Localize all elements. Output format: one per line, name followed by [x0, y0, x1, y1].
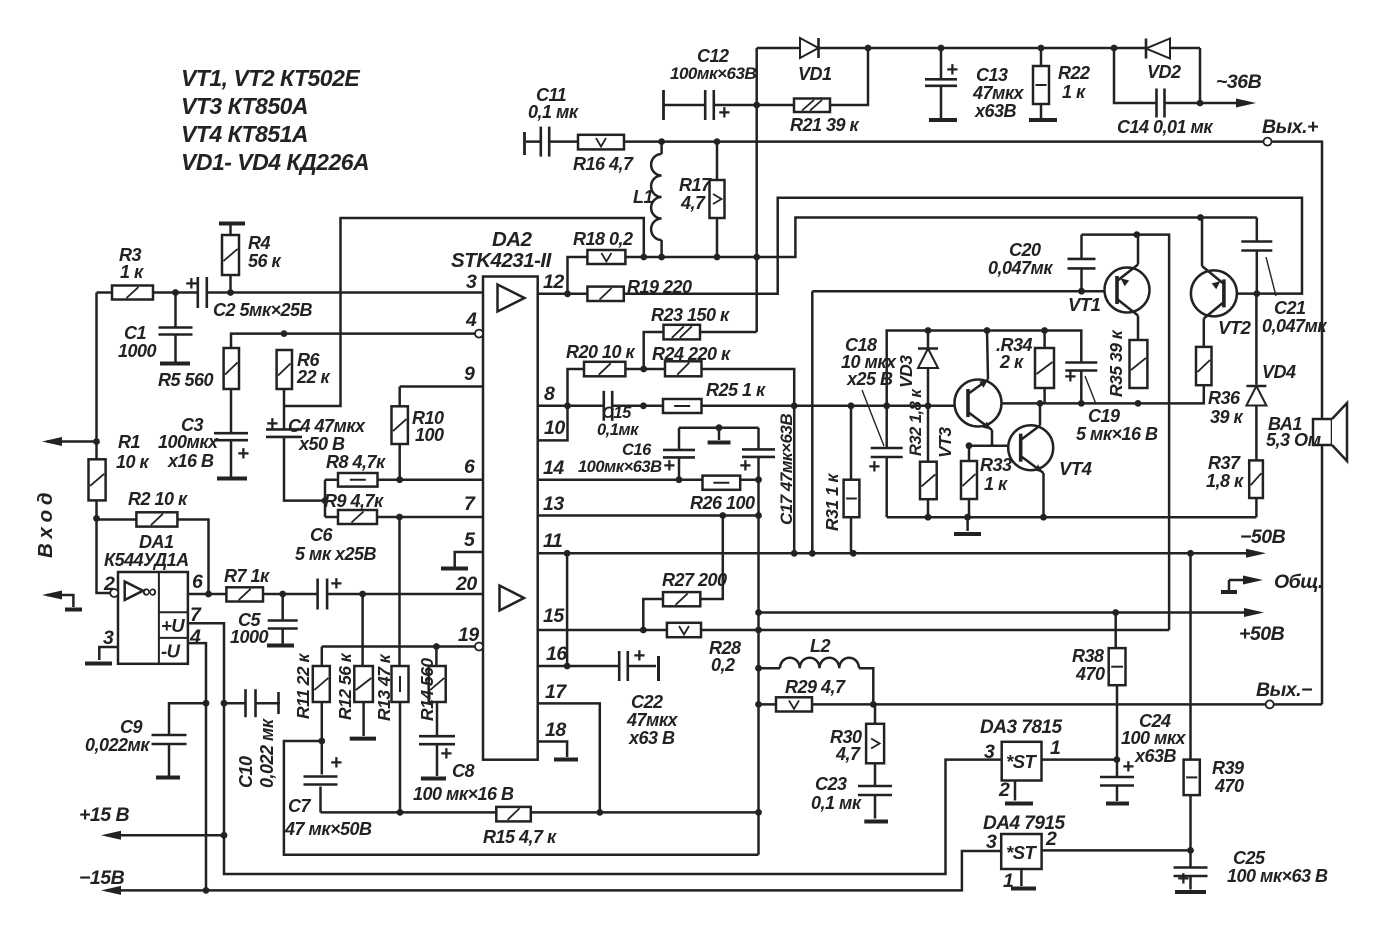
wire C10 branch — [224, 702, 280, 705]
capacitor C17 47mk x63V — [740, 448, 777, 458]
node dot R33 top — [966, 442, 973, 449]
capacitor C21 0.047mk — [1239, 241, 1274, 252]
svg-text:R27 200: R27 200 — [662, 570, 727, 590]
wire DA1 -U rail to -15V — [188, 643, 206, 890]
svg-text:VT4 КТ851А: VT4 КТ851А — [181, 121, 308, 147]
DA2 pin19 open circle — [475, 643, 483, 651]
diode VD1 — [800, 38, 819, 58]
svg-text:+: + — [1122, 755, 1134, 778]
inductor L2 — [780, 658, 859, 669]
label R4 — [248, 233, 282, 271]
wire input common arrow with step — [42, 591, 82, 610]
wire VD4/R37 column — [1255, 294, 1258, 518]
label C11 — [528, 85, 579, 122]
wire pin10 tied to pin8 — [538, 406, 568, 441]
svg-text:STK4231-II: STK4231-II — [451, 249, 553, 272]
svg-text:2: 2 — [1045, 828, 1057, 850]
op-amp DA1 K544UD1A body — [118, 572, 188, 664]
DA2 channel-1 triangle — [498, 285, 525, 312]
terminal bar below C5 — [267, 644, 294, 648]
label C13 plus — [946, 58, 958, 81]
label C9 — [85, 717, 150, 755]
svg-text:1 к: 1 к — [984, 474, 1008, 494]
label R38 — [1072, 646, 1105, 684]
wire feedback loop from R6 node up and over to R18 node (y=218) — [284, 218, 644, 406]
capacitor C18 10mk x25V — [869, 447, 905, 458]
node dots on pin8 line — [564, 366, 931, 410]
svg-text:R32 1,8 к: R32 1,8 к — [907, 388, 925, 456]
wire pin9 line with R10 drop — [400, 387, 483, 480]
svg-text:2: 2 — [998, 779, 1010, 801]
node dot C4/R8/R9 — [322, 497, 329, 504]
label R16 — [573, 154, 634, 174]
wire VD3/R32 column — [927, 331, 930, 518]
svg-text:+50В: +50В — [1239, 623, 1285, 645]
svg-text:470: 470 — [1075, 664, 1105, 684]
resistor R32 1.8k — [920, 462, 937, 500]
terminal bar C22 end — [657, 656, 660, 681]
label -50V — [1240, 526, 1286, 548]
svg-text:15: 15 — [543, 605, 565, 627]
resistor R1 10k — [89, 459, 106, 500]
resistor R26 100 — [703, 476, 741, 490]
svg-text:10: 10 — [544, 417, 565, 439]
svg-text:С12: С12 — [697, 46, 729, 66]
label C8 — [413, 761, 514, 804]
node dot R13 top — [396, 514, 403, 521]
label Vykh+ — [1262, 116, 1318, 138]
node dot pin16 — [564, 663, 571, 670]
resistor R27 200 — [663, 592, 700, 606]
wire pin11-pin16 tie — [566, 553, 569, 666]
node dot DA3 pin1 / C24 — [1113, 756, 1120, 763]
inductor L1 — [651, 154, 662, 240]
diode VD4 — [1246, 386, 1266, 406]
label DA2 left pins — [455, 271, 479, 646]
terminal bar below C9 — [156, 776, 180, 780]
resistor R11 22k — [313, 666, 330, 702]
wire pin6 line — [325, 478, 483, 481]
svg-text:х63В: х63В — [1134, 746, 1177, 766]
svg-text:С19: С19 — [1088, 406, 1120, 426]
svg-text:1,8 к: 1,8 к — [1206, 471, 1244, 491]
diode VD2 — [1146, 39, 1170, 59]
svg-text:6: 6 — [192, 571, 203, 593]
wire vertical from top supply to R18 node and R23 — [755, 48, 758, 332]
svg-text:1 к: 1 к — [120, 262, 144, 282]
svg-text:R5 560: R5 560 — [158, 370, 214, 390]
amplifier IC DA2 STK4231-II body — [483, 277, 538, 760]
svg-text:0,1мк: 0,1мк — [597, 421, 640, 439]
wire R18 branch from pin12 node — [568, 257, 588, 294]
svg-text:56 к: 56 к — [248, 251, 282, 271]
capacitor C1 1000 — [157, 327, 195, 336]
svg-text:R16 4,7: R16 4,7 — [573, 154, 634, 174]
svg-text:16: 16 — [546, 643, 567, 665]
svg-text:3: 3 — [466, 271, 477, 293]
wire pin14 line through R26 — [538, 478, 759, 481]
label R19 — [627, 277, 692, 297]
wire VT1 collector bus to pin15 riser — [1082, 235, 1170, 630]
node dots pin14 line — [676, 476, 762, 483]
wire input arrow stub — [47, 440, 97, 443]
label R15 — [483, 827, 557, 847]
svg-text:С21: С21 — [1274, 298, 1306, 318]
wire C9 branch — [169, 703, 206, 775]
wire C24 stubs — [1116, 760, 1119, 801]
wire pin13 line — [538, 514, 759, 517]
node dots y=330 line — [925, 327, 1048, 334]
svg-text:R38: R38 — [1072, 646, 1104, 666]
resistor R21 39k — [794, 99, 830, 113]
svg-text:С20: С20 — [1009, 240, 1041, 260]
node dots pin20 line — [205, 591, 366, 598]
svg-text:Вых.−: Вых.− — [1256, 679, 1312, 701]
wire top supply line y=48 (VD1/C13/R22/VD2) — [757, 47, 1200, 50]
label C7 — [284, 796, 372, 839]
svg-text:R17: R17 — [679, 175, 712, 195]
svg-text:R36: R36 — [1208, 388, 1241, 408]
svg-text:VT3: VT3 — [935, 427, 955, 458]
resistor R4 56k — [222, 235, 239, 275]
label DA2 — [451, 228, 553, 272]
label C13 — [972, 65, 1024, 121]
svg-text:0,047мк: 0,047мк — [1262, 316, 1327, 336]
label C1 — [118, 323, 157, 361]
label R2 — [128, 489, 188, 509]
wire C17 vertical (supply column) — [757, 428, 760, 855]
svg-text:+: + — [1064, 365, 1076, 388]
node dot DA4 pin2 / C25 — [1187, 847, 1194, 854]
svg-text:1 к: 1 к — [1062, 82, 1086, 102]
node dots C9/C10 — [203, 700, 228, 707]
label R32 (rotated) — [907, 388, 925, 456]
node dots input column — [93, 289, 234, 522]
svg-text:+: + — [440, 742, 452, 765]
svg-text:-U: -U — [161, 641, 181, 662]
svg-text:х50 В: х50 В — [298, 434, 345, 454]
node dot L2 left — [755, 665, 762, 672]
svg-text:4: 4 — [189, 626, 201, 648]
node dot R14 top — [433, 643, 440, 650]
resistor R9 4.7k — [338, 510, 377, 524]
node dot C7 top — [318, 738, 325, 745]
wire R18/L1/R17 node line y=257 rising to y=217.5 bus — [625, 218, 1256, 258]
label BA1 — [1266, 414, 1321, 450]
resistor R23 150k — [664, 325, 701, 340]
wire R33 column — [968, 446, 971, 518]
wire DA1 +U rail to +15V and DA3 pin3 — [188, 623, 1002, 874]
svg-text:+: + — [946, 58, 958, 81]
label R34 — [996, 335, 1033, 372]
capacitor C10 0.022mk — [245, 687, 279, 719]
label R6 — [296, 350, 331, 387]
svg-text:С8: С8 — [452, 761, 474, 781]
label DA4 — [983, 813, 1065, 834]
label R28 — [709, 638, 741, 675]
wire DA1 pin3 to ground — [99, 647, 118, 660]
capacitor C15 0.1mk — [603, 389, 614, 423]
label R9 — [324, 491, 384, 511]
label DA1 — [104, 532, 189, 570]
node dots on output rail — [658, 138, 720, 145]
wire C7 stubs — [321, 741, 322, 812]
wire pin15 output line through R28 to riser — [538, 629, 1169, 632]
svg-text:R4: R4 — [248, 233, 270, 253]
svg-text:R22: R22 — [1058, 63, 1090, 83]
transistor VT3 KT850A — [955, 331, 1002, 446]
svg-text:R1: R1 — [118, 432, 140, 452]
svg-text:3: 3 — [103, 627, 114, 649]
wire R27 branch — [643, 516, 723, 631]
resistor R18 0.2 — [587, 250, 625, 264]
arrow input left — [42, 437, 62, 446]
svg-text:х25 В: х25 В — [846, 369, 893, 389]
wire R30/C23 chain — [874, 704, 877, 818]
wire VT3 emitter to VT4 base — [991, 443, 994, 446]
svg-text:100мк×63В: 100мк×63В — [578, 458, 662, 476]
capacitor C20 0.047mk — [1066, 258, 1098, 270]
wire pin20 line from DA1 through R7/C6 — [188, 593, 483, 596]
transistor VT4 KT851A — [1008, 403, 1053, 517]
svg-text:R26 100: R26 100 — [690, 493, 755, 513]
wire C19 bottom stub — [1080, 372, 1083, 404]
terminal bar pin5 — [441, 567, 468, 571]
resistor R6 22k — [277, 350, 292, 389]
label R26 — [690, 493, 755, 513]
terminal bar below C24 — [1106, 802, 1129, 806]
label C18 — [841, 335, 897, 389]
wire R12 chain — [363, 594, 364, 736]
svg-text:С10: С10 — [236, 756, 256, 788]
capacitor C6 5mk x25V — [317, 577, 329, 612]
capacitor C8 100mk x16V — [417, 735, 457, 745]
label +15V — [79, 804, 129, 826]
terminal bar below C1 — [160, 362, 190, 366]
node dots R15 line — [397, 809, 762, 816]
label R36 — [1208, 388, 1244, 427]
label R29 — [785, 677, 846, 697]
wire C18 stubs — [885, 406, 888, 517]
wire pin8/R25 bias line y=405.8 — [538, 405, 968, 408]
label R24 — [652, 344, 731, 364]
label VD4 — [1262, 362, 1296, 382]
svg-text:R13 47 к: R13 47 к — [374, 653, 394, 721]
label VD2 — [1147, 62, 1181, 82]
svg-text:47 мк×50В: 47 мк×50В — [284, 819, 372, 839]
svg-text:2 к: 2 к — [999, 352, 1024, 372]
svg-text:4,7: 4,7 — [680, 193, 706, 213]
svg-text:R29 4,7: R29 4,7 — [785, 677, 846, 697]
terminal bar below C23 — [864, 820, 888, 824]
svg-text:*ST: *ST — [1006, 842, 1038, 863]
svg-text:С6: С6 — [310, 525, 333, 545]
svg-text:R2 10 к: R2 10 к — [128, 489, 188, 509]
svg-text:8: 8 — [544, 383, 555, 405]
svg-text:С1: С1 — [124, 323, 146, 343]
wire y=517 emitter line — [887, 516, 1257, 519]
svg-text:+: + — [330, 751, 342, 774]
label R37 — [1206, 453, 1244, 491]
svg-text:+: + — [718, 101, 730, 124]
svg-text:Общ.: Общ. — [1274, 571, 1323, 593]
svg-text:1000: 1000 — [118, 341, 157, 361]
capacitor C25 100mk x63V — [1172, 867, 1210, 878]
label R12 (rotated) — [335, 652, 355, 720]
node dots at R18/R19 node — [564, 254, 760, 298]
wire +50V rail — [759, 608, 1265, 617]
wire R24 line with drop to -50V rail — [644, 369, 795, 553]
wire R8/R9 common vertical — [324, 480, 327, 517]
leader line C19 — [1085, 376, 1096, 404]
label C6 — [295, 525, 376, 564]
capacitor C19 5mk x16V — [1063, 362, 1099, 372]
terminal Вых.+ open circle — [1264, 138, 1272, 146]
wire Obshch terminal — [1221, 576, 1263, 593]
node dot R6 top — [281, 330, 288, 337]
label R13 (rotated) — [374, 653, 394, 721]
resistor R16 4.7 — [578, 135, 624, 150]
wire C16 stubs — [678, 428, 681, 480]
svg-text:4,7: 4,7 — [835, 744, 861, 764]
svg-text:2: 2 — [103, 573, 115, 595]
svg-text:39 к: 39 к — [1210, 407, 1244, 427]
svg-text:17: 17 — [545, 681, 567, 703]
speaker BA1 5.3 Ohm — [1313, 403, 1347, 461]
wire R2 feedback from input node to pin6 of DA1 — [97, 520, 209, 595]
svg-text:х16 В: х16 В — [167, 451, 214, 471]
label R31 (rotated) — [822, 472, 842, 531]
label C4 — [288, 416, 366, 454]
diode VD3 — [918, 349, 938, 369]
svg-text:22 к: 22 к — [296, 367, 331, 387]
svg-text:5: 5 — [464, 529, 476, 551]
label C17 (rotated) — [777, 414, 796, 525]
label R18 — [573, 229, 633, 249]
label +50V — [1239, 623, 1285, 645]
transistor VT2 KT502E — [1191, 218, 1237, 347]
label R14 (rotated) — [417, 658, 437, 721]
terminal bar below C8 — [421, 777, 446, 781]
label C25 — [1227, 848, 1328, 886]
svg-text:х63 В: х63 В — [628, 728, 675, 748]
svg-text:VD4: VD4 — [1262, 362, 1296, 382]
svg-text:К544УД1А: К544УД1А — [104, 550, 189, 570]
svg-text:*ST: *ST — [1006, 751, 1038, 772]
svg-text:VD2: VD2 — [1147, 62, 1181, 82]
node dot VT1 top — [1133, 231, 1140, 238]
svg-text:10 к: 10 к — [116, 452, 150, 472]
label C12 — [670, 46, 756, 83]
label R25 — [706, 380, 766, 400]
svg-text:С17 47мк×63В: С17 47мк×63В — [777, 414, 796, 525]
capacitor C11 0.1mk — [525, 125, 551, 159]
label VT3 (rotated) — [935, 427, 955, 458]
svg-text:0,022мк: 0,022мк — [85, 735, 150, 755]
capacitor C3 100mk x16V — [212, 432, 250, 441]
resistor R22 1k — [1029, 48, 1057, 120]
svg-text:+: + — [237, 442, 249, 465]
label R20 — [566, 342, 636, 362]
capacitor C13 47mk x63V — [923, 48, 959, 120]
resistor R15 4.7k — [496, 807, 531, 822]
terminal Вых.- open circle — [1266, 700, 1274, 708]
label VD3 (rotated) — [896, 355, 916, 388]
svg-text:∞: ∞ — [142, 580, 156, 603]
svg-text:47мкх: 47мкх — [626, 710, 678, 730]
svg-text:5 мк х25В: 5 мк х25В — [295, 544, 376, 564]
resistor R35 39k — [1130, 340, 1148, 388]
node dots pin15 line — [640, 627, 762, 634]
svg-text:6: 6 — [464, 456, 475, 478]
wire L2 line — [759, 668, 874, 704]
resistor R29 4.7 — [776, 697, 812, 711]
svg-text:х63В: х63В — [974, 101, 1017, 121]
svg-text:100мк×63В: 100мк×63В — [670, 64, 756, 83]
label VD1 — [798, 64, 832, 84]
wire pin4 feedback line y=333.6 — [231, 334, 475, 348]
svg-text:47мкх: 47мкх — [972, 83, 1024, 103]
resistor R13 47k — [392, 666, 409, 702]
svg-text:3: 3 — [984, 741, 995, 763]
capacitor C23 0.1mk — [856, 785, 894, 796]
wire R23 branch — [644, 332, 757, 369]
wire R11 chain and loop to lower bus — [284, 647, 759, 855]
label R22 — [1058, 63, 1090, 102]
wire DA4 pin2 line with C25 — [1042, 850, 1191, 889]
node dot VT2 emitter — [1197, 214, 1204, 221]
wire R14 chain — [435, 647, 438, 777]
svg-text:9: 9 — [464, 363, 475, 385]
svg-text:13: 13 — [543, 493, 564, 515]
label R10 — [412, 408, 444, 445]
resistor R28 0.2 — [667, 623, 701, 637]
label C21 — [1262, 298, 1327, 336]
svg-text:VD1: VD1 — [798, 64, 832, 84]
wire +15V rail — [101, 831, 224, 840]
wire VD2/C14 loop and ~36V feed — [1114, 48, 1256, 108]
svg-text:0,1 мк: 0,1 мк — [811, 793, 862, 813]
svg-text:VT1, VT2 КТ502Е: VT1, VT2 КТ502Е — [181, 65, 360, 91]
svg-text:+: + — [266, 412, 278, 435]
svg-text:R19 220: R19 220 — [627, 277, 692, 297]
svg-text:12: 12 — [543, 271, 564, 293]
label R7 — [224, 566, 270, 586]
svg-text:+: + — [330, 572, 342, 595]
svg-text:R37: R37 — [1208, 453, 1241, 473]
label C23 — [811, 774, 862, 813]
svg-text:7: 7 — [464, 493, 476, 515]
svg-text:14: 14 — [543, 457, 564, 479]
node dots +50V rail — [755, 609, 1119, 616]
label C3 — [158, 415, 219, 471]
node dot R10 bottom — [396, 476, 403, 483]
DA2 pin4 open circle — [475, 330, 483, 338]
wire pin11 / -50V rail — [538, 549, 1266, 558]
wire y=330 bias line to C19 — [887, 331, 1082, 406]
label C19 — [1076, 406, 1158, 444]
wire C20 stubs — [1080, 235, 1083, 292]
resistor R3 1k — [112, 286, 153, 300]
svg-text:R11 22 к: R11 22 к — [293, 653, 313, 719]
svg-text:R33: R33 — [980, 455, 1012, 475]
wire R39 chain from -50V — [1189, 553, 1192, 850]
svg-text:VD1- VD4 КД226А: VD1- VD4 КД226А — [181, 149, 369, 175]
resistor R34 2k — [1035, 348, 1054, 388]
label R30 — [830, 727, 862, 764]
svg-text:VT4: VT4 — [1059, 458, 1092, 479]
label R11 (rotated) — [293, 653, 313, 719]
